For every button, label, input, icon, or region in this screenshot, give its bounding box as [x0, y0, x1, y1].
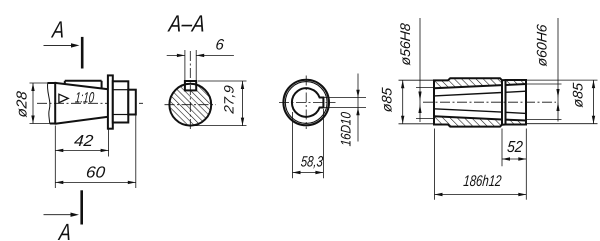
taper symbol triangle — [59, 94, 68, 103]
centerline horizontal — [165, 104, 217, 106]
cone top edge — [55, 83, 108, 89]
dimension line 27.9 — [242, 81, 244, 126]
shaft section circle — [169, 84, 211, 126]
extension line 42 left — [54, 126, 56, 189]
svg-text:ø28: ø28 — [15, 91, 31, 118]
dimension line dia60H6 — [557, 18, 559, 122]
arrow 52 right — [518, 157, 526, 160]
taper bore bottom line left part — [434, 116, 502, 119]
dimension line dia85 right — [593, 80, 595, 124]
extension line 42 right — [108, 130, 110, 157]
svg-text:42: 42 — [73, 132, 94, 150]
cone bottom edge — [55, 117, 108, 124]
dimension line 52 — [502, 158, 526, 160]
arrow dia85R down — [592, 116, 595, 124]
dimension line 6 right part — [196, 54, 234, 56]
cone left edge — [54, 82, 56, 125]
washer — [108, 75, 113, 128]
washer face line 1 — [501, 80, 503, 125]
arrow dia85L down — [401, 116, 404, 124]
arrow 6 right — [196, 54, 204, 57]
arrow dia85L up — [401, 80, 404, 88]
taper bore top line left part — [434, 85, 502, 88]
inner taper top line left part — [434, 93, 502, 96]
extension line 6 left — [184, 50, 186, 81]
centerline horizontal hub — [279, 102, 336, 104]
centerline vertical — [189, 51, 191, 131]
arrow dia28 down — [31, 116, 34, 124]
shaft threaded end protruding — [128, 90, 136, 115]
extension line dia28 top — [30, 82, 48, 84]
break line (wavy) — [47, 83, 49, 124]
arrow 42 right — [101, 149, 109, 152]
extension line 58.3 left — [292, 112, 294, 178]
nut facet line lower — [113, 114, 129, 116]
dimension line 16D10 — [357, 74, 359, 142]
inner taper bottom line right part — [505, 112, 526, 113]
centerline vertical hub — [305, 76, 307, 130]
arrow 16D10 lower (outside, pointing up) — [356, 108, 359, 116]
svg-text:186h12: 186h12 — [463, 173, 503, 190]
arrow dia28 up — [31, 83, 34, 91]
svg-text:58,3: 58,3 — [300, 154, 324, 171]
dimension line 6 left part — [167, 54, 185, 56]
key right edge — [101, 81, 103, 89]
extension line 16D10 bottom — [321, 107, 366, 109]
extension line dia85 right top — [526, 79, 598, 81]
extension line 52 right — [525, 129, 527, 200]
extension line dia56 top — [416, 87, 434, 89]
extension line 60 right — [135, 116, 137, 189]
svg-text:52: 52 — [506, 138, 523, 156]
dimension line dia28 — [32, 83, 34, 124]
extension line dia85 left bottom — [399, 123, 435, 125]
extension line dia60 top — [526, 83, 562, 85]
shaft stub bottom edge — [50, 123, 55, 125]
svg-text:ø85: ø85 — [379, 87, 395, 113]
extension line 27.9 top — [198, 80, 247, 82]
arrow 27.9 down — [241, 118, 244, 126]
arrow 60 right — [128, 181, 136, 184]
svg-text:16D10: 16D10 — [338, 111, 354, 147]
hatch bottom left band — [434, 116, 502, 126]
dimension line 186h12 — [435, 194, 527, 196]
dimension line 60 — [55, 181, 136, 183]
svg-text:1:10: 1:10 — [74, 89, 95, 106]
shaft section circle hatch — [169, 84, 211, 126]
hatch top right band — [505, 80, 526, 85]
arrow dia85R up — [592, 80, 595, 88]
key rect outline — [185, 81, 196, 90]
arrow 58.3 right — [315, 171, 323, 174]
arrow dia60 upper — [556, 89, 559, 98]
hub outer circle — [283, 80, 329, 126]
extension line dia85 right bottom — [526, 123, 598, 125]
nut body — [113, 81, 129, 122]
svg-text:ø85: ø85 — [570, 82, 586, 108]
bushing outline — [434, 78, 526, 126]
section arrow top — [44, 44, 74, 46]
arrow 42 left — [55, 149, 63, 152]
hub bore with keyway — [292, 88, 323, 117]
hatch top left band — [434, 78, 502, 88]
arrow dia60 lower — [556, 102, 559, 111]
dimension line 42 — [55, 149, 108, 151]
dimension line 58.3 — [293, 172, 324, 174]
extension line dia60 bottom — [526, 119, 562, 121]
centerline left view — [37, 102, 143, 104]
arrow 16D10 upper (outside, pointing down) — [356, 90, 359, 98]
section plane trace top — [81, 37, 84, 69]
washer face line 2 — [505, 80, 507, 125]
section arrow bottom — [44, 214, 73, 216]
taper bore bottom line right part — [505, 119, 526, 122]
inner taper bottom line left part — [434, 109, 502, 112]
extension line 16D10 top — [321, 97, 366, 99]
hub chamfer circle — [285, 82, 327, 124]
arrow 52 left — [502, 157, 510, 160]
arrow 6 left — [177, 54, 185, 57]
shaft stub top edge — [48, 82, 56, 84]
section plane trace bottom — [80, 190, 83, 224]
arrow 186h12 left — [435, 193, 443, 196]
svg-text:ø56H8: ø56H8 — [397, 22, 413, 66]
arrow dia56 lower — [418, 104, 421, 113]
arrow 58.3 left — [293, 171, 301, 174]
svg-text:ø60H6: ø60H6 — [534, 23, 550, 67]
extension line 52 left — [501, 129, 503, 167]
inner taper top line right part — [505, 91, 526, 92]
arrow dia56 upper — [418, 92, 421, 102]
key top edge — [65, 80, 102, 82]
dimension line dia56H8 — [419, 18, 421, 122]
taper bore top line right part — [505, 84, 526, 85]
key left edge — [64, 81, 66, 85]
arrow 60 left — [55, 181, 63, 184]
arrow 27.9 up — [241, 81, 244, 89]
svg-text:60: 60 — [85, 163, 106, 181]
extension line 6 right — [195, 50, 197, 81]
extension line dia85 left top — [399, 79, 435, 81]
centerline bushing — [423, 101, 556, 103]
dimension line dia85 left — [402, 80, 404, 124]
svg-text:27,9: 27,9 — [222, 84, 237, 115]
extension line 58.3 right — [322, 109, 324, 178]
hatch bottom right band — [505, 120, 526, 125]
extension line dia28 bottom — [30, 123, 50, 125]
nut facet line upper — [113, 89, 129, 91]
extension line 186h12 left — [434, 129, 436, 200]
extension line 27.9 bottom — [192, 125, 247, 127]
arrow 186h12 right — [518, 193, 526, 196]
extension line dia56 bottom — [416, 118, 434, 120]
key cross-section — [185, 81, 196, 90]
svg-text:A–A: A–A — [166, 11, 206, 37]
